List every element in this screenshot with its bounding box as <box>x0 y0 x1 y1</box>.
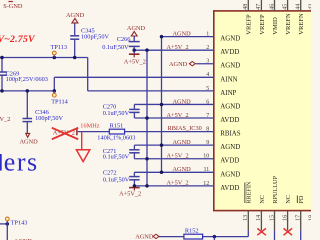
svg-text:TP143: TP143 <box>11 219 28 226</box>
svg-text:V_2: V_2 <box>0 116 10 123</box>
svg-text:A+5V_2: A+5V_2 <box>167 180 189 187</box>
svg-text:NC: NC <box>285 195 292 204</box>
svg-text:45: 45 <box>282 4 288 10</box>
svg-text:VMID: VMID <box>272 17 279 35</box>
svg-text:2: 2 <box>206 45 209 51</box>
svg-text:A+5V_2: A+5V_2 <box>119 191 141 198</box>
svg-text:11: 11 <box>204 167 210 173</box>
svg-text:RPULLUP: RPULLUP <box>272 176 279 204</box>
svg-text:AGND: AGND <box>220 171 240 178</box>
svg-text:VREFP: VREFP <box>259 14 266 35</box>
svg-text:0.1uF,50V: 0.1uF,50V <box>103 154 130 161</box>
svg-text:VREFN: VREFN <box>298 13 305 35</box>
svg-text:AINP: AINP <box>220 90 236 97</box>
svg-text:PD: PD <box>298 195 305 203</box>
svg-text:48: 48 <box>243 4 249 10</box>
svg-text:AVDD: AVDD <box>220 185 239 192</box>
svg-text:0.1uF,50V: 0.1uF,50V <box>102 44 129 51</box>
svg-text:AINN: AINN <box>220 76 237 83</box>
svg-text:RREFIN: RREFIN <box>246 181 253 204</box>
svg-text:AGND: AGND <box>220 103 240 110</box>
svg-text:10: 10 <box>203 154 209 160</box>
svg-text:C266: C266 <box>117 36 131 43</box>
svg-text:AGND: AGND <box>173 30 192 37</box>
svg-text:100pF,50V: 100pF,50V <box>35 115 63 122</box>
svg-text:100pF,50V: 100pF,50V <box>81 34 109 41</box>
svg-text:VREFP: VREFP <box>246 14 253 35</box>
svg-text:43: 43 <box>309 4 311 10</box>
svg-text:AGND: AGND <box>220 63 240 70</box>
svg-text:C272: C272 <box>103 169 117 176</box>
svg-text:A+5V_2: A+5V_2 <box>167 112 189 119</box>
svg-text:RBIAS_IC30: RBIAS_IC30 <box>168 125 202 132</box>
svg-text:3: 3 <box>206 59 209 65</box>
svg-text:AGND: AGND <box>173 139 192 146</box>
svg-text:1: 1 <box>206 32 209 38</box>
svg-text:V~2.75V: V~2.75V <box>0 34 36 45</box>
svg-text:AGND: AGND <box>220 36 240 43</box>
svg-text:A+5V_2: A+5V_2 <box>167 153 189 160</box>
svg-text:S-GND: S-GND <box>3 3 23 10</box>
svg-text:16MHz: 16MHz <box>80 123 99 130</box>
svg-text:AGND: AGND <box>135 233 154 240</box>
svg-text:AGND: AGND <box>220 144 240 151</box>
svg-text:16: 16 <box>282 215 288 221</box>
svg-text:AGND: AGND <box>173 98 192 105</box>
svg-text:5: 5 <box>206 86 209 92</box>
svg-text:AGND: AGND <box>173 166 192 173</box>
svg-text:15: 15 <box>269 215 275 221</box>
svg-text:AGND: AGND <box>66 12 85 19</box>
svg-text:13: 13 <box>243 215 249 221</box>
svg-text:VREFN: VREFN <box>285 13 292 35</box>
svg-text:AVDD: AVDD <box>220 117 239 124</box>
svg-text:AGND: AGND <box>169 61 188 68</box>
svg-text:18: 18 <box>309 215 311 221</box>
svg-text:R152: R152 <box>185 227 199 234</box>
svg-text:9: 9 <box>206 140 209 146</box>
svg-text:TP114: TP114 <box>51 99 68 106</box>
svg-text:AVDD: AVDD <box>220 158 239 165</box>
svg-text:44: 44 <box>296 4 302 10</box>
svg-text:0.1uF,50V: 0.1uF,50V <box>103 110 130 117</box>
svg-text:140K,1%,0603: 140K,1%,0603 <box>97 134 135 141</box>
svg-text:ers: ers <box>4 148 39 177</box>
svg-text:AGND: AGND <box>20 138 39 145</box>
svg-text:RBIAS: RBIAS <box>220 131 240 138</box>
svg-text:47: 47 <box>256 4 262 10</box>
svg-text:8: 8 <box>206 126 209 132</box>
svg-text:12: 12 <box>203 181 209 187</box>
svg-text:R151: R151 <box>110 122 124 129</box>
svg-text:46: 46 <box>269 4 275 10</box>
svg-text:7: 7 <box>206 113 209 119</box>
svg-text:17: 17 <box>296 215 302 221</box>
svg-text:100pF,25V/0603: 100pF,25V/0603 <box>6 76 48 83</box>
svg-text:4: 4 <box>206 72 209 78</box>
svg-text:AVDD: AVDD <box>220 49 239 56</box>
svg-text:A+5V_2: A+5V_2 <box>124 59 146 66</box>
svg-text:6: 6 <box>206 99 209 105</box>
svg-text:14: 14 <box>256 215 262 221</box>
svg-text:NC: NC <box>259 195 266 204</box>
svg-text:AGND: AGND <box>127 25 146 32</box>
svg-text:TP113: TP113 <box>51 44 68 51</box>
svg-text:0.1uF,50V: 0.1uF,50V <box>103 176 130 183</box>
svg-text:A+5V_2: A+5V_2 <box>167 44 189 51</box>
